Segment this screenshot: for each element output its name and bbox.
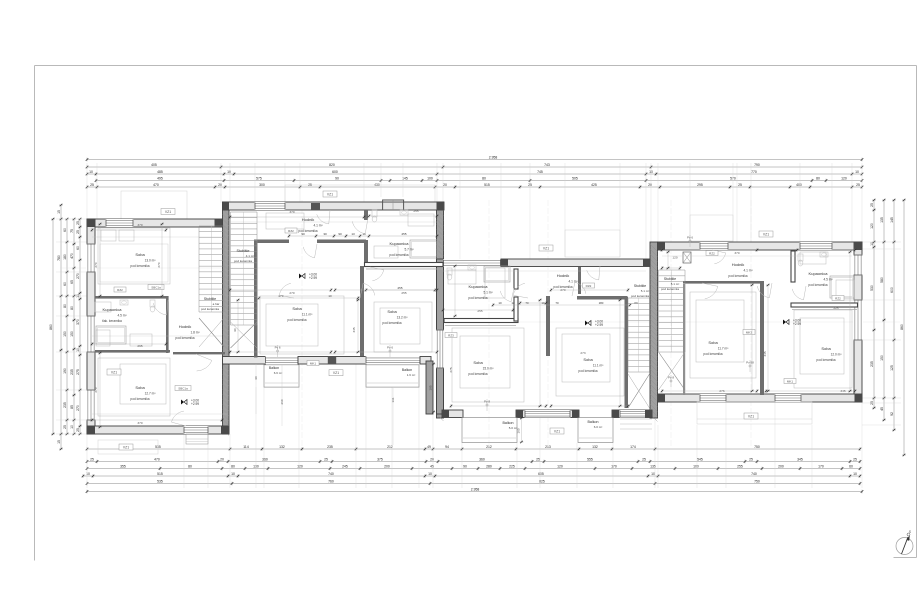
unit3 bottom wall segment 2	[516, 410, 579, 418]
svg-text:13.2 m²: 13.2 m²	[397, 316, 408, 320]
right dimension column 2	[883, 200, 885, 420]
svg-text:190: 190	[63, 368, 67, 374]
svg-text:11.1 m²: 11.1 m²	[593, 364, 604, 368]
svg-text:25: 25	[870, 203, 874, 207]
svg-text:25: 25	[853, 458, 857, 462]
door arc unit4 kupaonica	[792, 289, 803, 300]
unit2 soba west wall	[254, 240, 258, 358]
tag SBC1a unit1 top	[148, 285, 164, 290]
svg-text:VZ1: VZ1	[165, 210, 171, 214]
unit2 top wall pillar	[311, 203, 320, 210]
furniture unit2 kupaonica	[408, 214, 434, 226]
tag VZ1 unit3 top	[539, 245, 553, 251]
svg-text:10: 10	[76, 348, 80, 352]
modular axis lines vertical	[301, 200, 303, 446]
svg-text:860: 860	[900, 324, 904, 330]
svg-text:pod keramika: pod keramika	[287, 318, 306, 322]
svg-text:10: 10	[89, 170, 93, 174]
unit3 bottom wall window 2	[620, 410, 647, 418]
porch steps unit1 entry	[186, 434, 208, 444]
unit2 hodnik south wall segment b	[317, 240, 366, 244]
left dimension column 3	[66, 219, 68, 434]
svg-text:132: 132	[279, 445, 285, 449]
svg-text:85: 85	[70, 405, 74, 409]
svg-text:49: 49	[427, 445, 431, 449]
svg-text:135: 135	[880, 217, 884, 223]
svg-text:375: 375	[377, 458, 383, 462]
svg-text:20: 20	[648, 183, 652, 187]
tag MK1 unit2	[307, 361, 319, 366]
unit2 soba2 interior dim row	[366, 289, 435, 291]
door arc unit1 soba2	[197, 360, 212, 371]
party wall 3-4 hatching	[650, 244, 658, 252]
svg-text:Hodnik: Hodnik	[302, 217, 314, 222]
svg-text:6.6 m²: 6.6 m²	[274, 371, 283, 375]
svg-text:515: 515	[484, 183, 490, 187]
unit3 left wall window	[436, 330, 445, 369]
svg-text:470: 470	[154, 458, 160, 462]
svg-text:160: 160	[517, 428, 521, 433]
door arc unit2 soba2	[363, 283, 375, 295]
svg-text:pod keramika: pod keramika	[808, 283, 827, 287]
bathroom fixtures unit1 kupaonica	[150, 300, 155, 307]
svg-text:235: 235	[327, 445, 333, 449]
corner pillar unit1 top-right	[215, 219, 223, 227]
unit2 kupaonica left wall upper stub	[364, 210, 368, 220]
svg-text:174: 174	[630, 445, 636, 449]
svg-text:pod keramika: pod keramika	[816, 358, 835, 362]
top dimension row 4	[96, 180, 862, 182]
svg-text:+2.99: +2.99	[595, 323, 603, 327]
unit1 interior wall kupaonica bottom	[95, 350, 170, 353]
svg-text:+2.99: +2.99	[309, 276, 317, 280]
svg-text:150: 150	[70, 331, 74, 337]
unit3 left wall lower	[437, 259, 444, 414]
corner pillar unit3 bottom-d	[612, 410, 619, 418]
svg-text:Pv 6: Pv 6	[687, 236, 693, 240]
svg-text:745: 745	[537, 170, 543, 174]
left dimension column 5	[79, 219, 81, 434]
porch steps unit3 exit	[620, 418, 652, 420]
svg-text:Soba: Soba	[821, 346, 831, 351]
furniture bed unit3 soba2	[556, 328, 624, 396]
tag VZ1 unit4 bottom	[744, 413, 758, 419]
svg-text:360: 360	[262, 458, 268, 462]
unit4 terrace outline below	[697, 402, 812, 424]
unit4 top wall window 2	[800, 242, 833, 250]
svg-text:300: 300	[259, 183, 265, 187]
unit2 shaft wall down to unit3	[426, 361, 433, 414]
unit2 soba interior dim row	[259, 297, 358, 299]
svg-text:600: 600	[332, 170, 338, 174]
canopy outline above unit1 entrance	[121, 191, 187, 219]
svg-text:530: 530	[870, 285, 874, 291]
furniture bed unit2 soba2	[374, 302, 432, 352]
svg-text:545: 545	[697, 458, 703, 462]
svg-text:100: 100	[693, 465, 699, 469]
svg-text:10: 10	[231, 472, 235, 476]
svg-text:pod keramika: pod keramika	[728, 274, 747, 278]
door arc unit2 kupaonica	[352, 221, 365, 234]
svg-text:Balkon: Balkon	[503, 421, 514, 425]
svg-text:114: 114	[243, 445, 249, 449]
left dimension column 2	[60, 205, 62, 449]
svg-text:VZ1: VZ1	[763, 232, 769, 236]
svg-text:10: 10	[86, 472, 90, 476]
svg-text:25: 25	[90, 458, 94, 462]
svg-text:pod keramika: pod keramika	[468, 372, 487, 376]
furniture unit1 kupaonica fixtures	[95, 302, 111, 312]
svg-text:13.0 m²: 13.0 m²	[145, 259, 156, 263]
svg-text:4.1 m²: 4.1 m²	[568, 280, 577, 284]
svg-text:6.0 m²: 6.0 m²	[594, 425, 603, 429]
tag SKC1a unit1	[175, 386, 191, 391]
svg-text:120: 120	[841, 177, 847, 181]
svg-text:Pv 8: Pv 8	[668, 376, 674, 380]
svg-text:10: 10	[227, 170, 231, 174]
unit3 kupaonica bottom wall	[444, 319, 518, 323]
svg-text:12.0 m²: 12.0 m²	[831, 353, 842, 357]
svg-text:495: 495	[157, 177, 163, 181]
svg-text:235: 235	[70, 369, 74, 375]
svg-text:Soba: Soba	[292, 306, 302, 311]
svg-text:pod keramika: pod keramika	[468, 296, 487, 300]
svg-text:345: 345	[352, 327, 356, 332]
svg-text:25: 25	[324, 458, 328, 462]
svg-text:235: 235	[870, 361, 874, 367]
tag MK1 unit4	[784, 379, 796, 384]
party wall between unit1 and unit2	[223, 202, 230, 434]
svg-text:VZ1: VZ1	[554, 429, 560, 433]
unit2 hodnik south wall segment a	[254, 240, 289, 244]
svg-text:20: 20	[430, 458, 434, 462]
unit3 top wall	[501, 259, 650, 267]
corner pillar unit4 bottom-right	[855, 394, 863, 402]
svg-text:80: 80	[482, 177, 486, 181]
svg-text:12.7 m²: 12.7 m²	[145, 392, 156, 396]
svg-text:13: 13	[351, 232, 355, 236]
svg-text:pod keramika: pod keramika	[130, 397, 149, 401]
svg-text:25: 25	[63, 425, 67, 429]
unit1 interior wall vertical	[166, 296, 169, 353]
svg-text:Soba: Soba	[473, 360, 483, 365]
unit3 interior wall hodnik bottom	[577, 296, 628, 300]
top dimension row 3	[87, 173, 862, 175]
svg-text:1.8 m²: 1.8 m²	[190, 331, 199, 335]
staircase unit4	[659, 269, 686, 271]
svg-text:4.5 m²: 4.5 m²	[117, 314, 126, 318]
door arc unit3 kupaonica	[500, 291, 511, 302]
svg-text:580: 580	[880, 277, 884, 283]
svg-text:275: 275	[76, 369, 80, 375]
svg-text:+2.99: +2.99	[793, 322, 801, 326]
svg-text:150: 150	[63, 331, 67, 337]
svg-text:425: 425	[591, 183, 597, 187]
unit4 interior wall vertical	[760, 281, 764, 395]
svg-text:25: 25	[642, 458, 646, 462]
svg-text:pod keramika: pod keramika	[661, 287, 679, 291]
wall face guide lines	[92, 236, 222, 238]
unit3 bottom wall segment 1	[442, 410, 463, 418]
svg-text:pod keramika: pod keramika	[631, 294, 649, 298]
unit1 top wall window	[106, 219, 134, 227]
modular axis lines horizontal	[60, 267, 440, 269]
svg-text:Pv 6: Pv 6	[387, 346, 393, 350]
svg-text:Soba: Soba	[583, 357, 593, 362]
svg-text:820: 820	[329, 163, 335, 167]
svg-text:15.0 m²: 15.0 m²	[483, 367, 494, 371]
door arc unit3 hodnik	[513, 283, 525, 295]
svg-text:VZ1: VZ1	[327, 192, 333, 196]
svg-text:4.5 m²: 4.5 m²	[823, 278, 832, 282]
bathroom fixtures unit4 kupaonica	[798, 254, 803, 261]
svg-text:360: 360	[479, 458, 485, 462]
svg-text:270: 270	[94, 262, 98, 267]
svg-text:780: 780	[57, 255, 61, 261]
svg-text:1.6 m²: 1.6 m²	[407, 373, 416, 377]
svg-text:10: 10	[70, 425, 74, 429]
unit2 bottom wall left segment	[223, 357, 266, 365]
svg-text:20: 20	[218, 183, 222, 187]
svg-text:555: 555	[587, 458, 593, 462]
tag RZ2 unit4b	[706, 251, 718, 256]
svg-text:10: 10	[870, 242, 874, 246]
svg-text:4.1 m²: 4.1 m²	[246, 254, 255, 258]
svg-text:Hodnik: Hodnik	[732, 262, 744, 267]
svg-text:255: 255	[737, 465, 743, 469]
svg-text:255: 255	[401, 291, 406, 295]
svg-text:+2.99: +2.99	[191, 402, 199, 406]
furniture bed unit1 soba1	[98, 228, 170, 284]
svg-text:5.1 m²: 5.1 m²	[671, 282, 680, 286]
svg-text:265: 265	[137, 344, 142, 348]
svg-text:RZ3: RZ3	[448, 333, 454, 337]
left dimension column 4	[73, 219, 75, 434]
extension lines right side	[862, 241, 901, 243]
right dimension column 1	[873, 200, 875, 408]
level marker unit4	[783, 320, 786, 325]
svg-text:225: 225	[833, 306, 838, 310]
unit3 bottom wall window	[525, 410, 571, 418]
svg-text:RZ2: RZ2	[117, 288, 123, 292]
svg-text:75: 75	[70, 229, 74, 233]
top dimension row 2	[87, 166, 862, 168]
svg-text:20: 20	[443, 183, 447, 187]
svg-text:235: 235	[63, 402, 67, 408]
unit2 hodnik mini dim row	[289, 235, 437, 237]
unit3 hodnik west wall	[578, 267, 581, 294]
svg-text:145: 145	[890, 217, 894, 223]
unit4 bottom wall window 2	[775, 394, 802, 402]
staircase unit3	[628, 297, 650, 299]
svg-text:605: 605	[538, 472, 544, 476]
svg-text:270: 270	[289, 291, 294, 295]
unit1 bottom wall	[87, 426, 229, 434]
svg-text:10: 10	[498, 301, 502, 305]
svg-text:pod keramika: pod keramika	[382, 321, 401, 325]
svg-text:180: 180	[599, 301, 604, 305]
unit3 balcony 1 outline	[462, 418, 517, 443]
svg-text:5.1 m²: 5.1 m²	[483, 291, 492, 295]
corner pillar unit1 bottom-left	[87, 426, 95, 434]
svg-text:4.1 m²: 4.1 m²	[743, 269, 752, 273]
svg-text:MK1: MK1	[787, 379, 794, 383]
corner pillar unit3 bottom-b	[516, 410, 523, 418]
svg-text:RZ2: RZ2	[835, 296, 841, 300]
svg-text:345: 345	[797, 458, 803, 462]
tag VZ1 unit1 left	[107, 369, 121, 375]
interior dimension lines unit3	[443, 309, 513, 311]
furniture bed unit4 soba2	[794, 310, 852, 388]
unit3 balcony 2 outline	[578, 418, 613, 443]
svg-text:Hodnik: Hodnik	[179, 324, 191, 329]
svg-text:150: 150	[880, 355, 884, 361]
right dimension column 4 overall 860	[903, 200, 905, 455]
svg-text:15: 15	[57, 210, 61, 214]
svg-text:125: 125	[890, 365, 894, 371]
svg-text:pod keramika: pod keramika	[298, 229, 317, 233]
svg-text:RZ2: RZ2	[288, 229, 294, 233]
svg-text:225: 225	[509, 465, 515, 469]
corner pillar unit4 bottom-left	[658, 394, 665, 402]
svg-text:80: 80	[816, 177, 820, 181]
svg-text:255: 255	[401, 232, 406, 236]
svg-text:25: 25	[76, 221, 80, 225]
axis marker PV8 unit3	[486, 399, 488, 411]
svg-text:200: 200	[384, 465, 390, 469]
party wall 1-2 hatching	[223, 204, 230, 211]
svg-text:355: 355	[120, 465, 126, 469]
svg-text:Kupaonica: Kupaonica	[390, 241, 410, 246]
svg-text:743: 743	[544, 163, 550, 167]
svg-text:Kupaonica: Kupaonica	[809, 271, 829, 276]
svg-text:10: 10	[651, 472, 655, 476]
door arc unit1 entry	[172, 411, 184, 422]
door arc unit3 soba2	[575, 282, 586, 293]
svg-text:VZ1: VZ1	[748, 414, 754, 418]
svg-text:270: 270	[94, 387, 98, 392]
svg-text:5.1 m²: 5.1 m²	[641, 289, 650, 293]
corner pillar unit3 bottom-e	[645, 410, 652, 418]
svg-text:345: 345	[763, 351, 767, 356]
svg-text:20: 20	[220, 458, 224, 462]
svg-text:VZ1: VZ1	[543, 246, 549, 250]
svg-text:750: 750	[754, 480, 760, 484]
svg-text:25: 25	[76, 428, 80, 432]
svg-text:405: 405	[151, 163, 157, 167]
svg-text:25: 25	[738, 183, 742, 187]
svg-text:273: 273	[580, 351, 585, 355]
svg-text:10: 10	[853, 472, 857, 476]
axis marker PV6 unit2	[389, 345, 391, 357]
corner pillar unit1 top-left	[87, 219, 95, 227]
svg-text:Stubište: Stubište	[664, 277, 676, 281]
svg-text:170: 170	[611, 465, 617, 469]
svg-text:750: 750	[754, 445, 760, 449]
svg-text:120: 120	[557, 465, 563, 469]
unit1 left wall window 3	[86, 390, 96, 421]
svg-text:60: 60	[634, 301, 638, 305]
svg-text:2.958: 2.958	[471, 488, 480, 492]
unit1 top wall	[87, 219, 223, 227]
svg-text:740: 740	[751, 472, 757, 476]
canopy outline above unit4 entrance	[690, 215, 733, 241]
staircase unit1	[199, 225, 224, 227]
corner pillar unit3 top-left	[501, 259, 508, 267]
party wall between unit3 and unit4	[650, 242, 658, 418]
tag RZ2 unit4	[832, 296, 844, 301]
unit4 top wall window 1	[700, 242, 729, 250]
svg-text:VZ1: VZ1	[333, 371, 339, 375]
svg-text:90: 90	[338, 232, 342, 236]
unit4 vent shaft	[683, 252, 691, 263]
unit4 bottom wall	[658, 394, 863, 402]
corner pillar unit4 top-right	[855, 242, 863, 250]
svg-text:90: 90	[233, 328, 237, 332]
svg-text:770: 770	[751, 170, 757, 174]
bottom dimension row 5	[87, 483, 860, 485]
svg-text:195: 195	[429, 385, 433, 390]
drawing sheet frame left edge	[34, 66, 36, 561]
svg-text:120: 120	[870, 223, 874, 229]
unit2 top wall window	[255, 202, 286, 210]
tag VZ1 unit4 top	[759, 231, 773, 237]
corner pillar unit3 bottom-a	[442, 410, 449, 418]
svg-text:pod keramika: pod keramika	[201, 307, 219, 311]
svg-text:470: 470	[70, 253, 74, 259]
svg-text:pod keramika: pod keramika	[234, 259, 252, 263]
svg-text:120: 120	[297, 465, 303, 469]
corner pillar unit1 bottom-right	[221, 426, 229, 434]
door arc unit2 soba	[279, 283, 291, 295]
corner pillar unit2 top-left	[223, 202, 230, 210]
svg-text:270: 270	[76, 273, 80, 279]
interior dimension lines unit1	[92, 229, 166, 231]
svg-text:30: 30	[323, 232, 327, 236]
svg-text:Pv 98: Pv 98	[746, 361, 754, 365]
svg-text:a har: a har	[213, 302, 220, 306]
compass north symbol	[896, 538, 913, 555]
svg-text:70: 70	[555, 301, 559, 305]
svg-text:Pv 8: Pv 8	[484, 400, 490, 404]
svg-text:370: 370	[76, 319, 80, 325]
svg-text:370: 370	[734, 251, 739, 255]
svg-text:25: 25	[76, 230, 80, 234]
svg-text:Stubište: Stubište	[237, 249, 250, 253]
unit4 bottom wall window 1	[700, 394, 727, 402]
svg-text:180: 180	[63, 254, 67, 260]
svg-text:80: 80	[63, 304, 67, 308]
tag VZ1 unit3 bottom	[550, 428, 564, 434]
svg-text:94: 94	[445, 445, 449, 449]
right dimension column 3	[893, 200, 895, 430]
svg-text:Soba: Soba	[135, 252, 145, 257]
svg-text:4.1 m²: 4.1 m²	[313, 224, 322, 228]
unit2 top wall	[223, 202, 445, 210]
axis marker PV6 unit2b	[277, 345, 279, 357]
svg-text:12: 12	[511, 301, 515, 305]
furniture unit2 hodnik	[266, 213, 304, 229]
level marker unit2	[299, 274, 302, 279]
svg-text:740: 740	[328, 472, 334, 476]
unit4 soba left wall	[683, 284, 685, 395]
unit1 left wall	[87, 219, 95, 434]
svg-text:RZ2: RZ2	[586, 284, 592, 288]
svg-text:370: 370	[137, 421, 142, 425]
bathroom fixtures unit2 kupaonica	[372, 210, 377, 217]
corner pillar unit2 top-right	[437, 202, 444, 210]
furniture bed unit4 soba1	[690, 292, 756, 378]
